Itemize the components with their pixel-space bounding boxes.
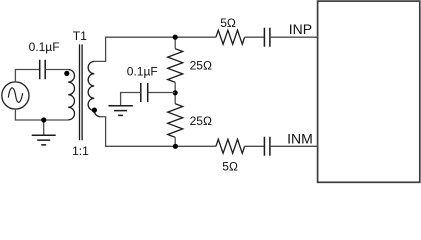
wire R1 to C2 [245,36,265,38]
wire source bottom to T1 primary bottom [15,109,68,120]
resistor R2 5ohm (bottom) [216,139,245,153]
wire secondary top lead to top rail [94,37,216,61]
svg-text:INP: INP [289,21,312,37]
svg-text:T1: T1 [73,29,87,43]
IC box (device under test) [318,1,420,182]
svg-text:25Ω: 25Ω [190,114,212,128]
wire R2 to C3 [245,145,265,147]
AC source sine wave [8,88,22,102]
capacitor C1 0.1uF plates [40,60,46,79]
wire C2 to INP pin [270,36,318,38]
wire source top to C1 [15,70,39,82]
svg-text:1:1: 1:1 [72,144,89,158]
AC source V1 circle [2,82,29,109]
ground symbol mid [108,106,132,116]
resistor R1 5ohm (top) [216,30,245,44]
wire C3 to INM pin [270,145,318,147]
wire C1 to T1 primary [45,69,68,71]
svg-text:25Ω: 25Ω [190,59,212,73]
capacitor C3 plates (bottom) [264,137,270,156]
transformer T1 primary winding [68,69,74,119]
capacitor C4 0.1uF plates (mid) [141,83,148,102]
junction source-ground node [41,117,46,122]
svg-text:5Ω: 5Ω [220,16,236,30]
ground stem left [43,120,45,135]
junction top rail node [173,35,178,40]
ground symbol left [32,135,56,145]
svg-text:0.1µF: 0.1µF [127,64,158,78]
transformer T1 secondary winding [88,61,100,116]
svg-text:INM: INM [287,130,313,146]
divider chain top lead [174,37,176,49]
T1 primary phase dot [64,71,69,76]
resistor R3 25ohm (upper) [168,49,183,83]
wire R3 to midpoint [174,82,176,103]
wire C4 to ground [121,93,141,106]
junction bottom rail node [173,144,178,149]
svg-text:0.1µF: 0.1µF [29,40,60,54]
T1 secondary phase dot [92,108,97,113]
resistor R4 25ohm (lower) [168,104,183,138]
capacitor C2 plates (top) [264,28,270,47]
wire midpoint to C4 [148,92,176,94]
transformer T1 core [80,44,83,140]
svg-text:5Ω: 5Ω [222,159,238,173]
divider chain bottom lead [174,137,176,146]
wire secondary bottom lead to bottom rail [100,117,215,147]
junction midpoint node [173,90,178,95]
